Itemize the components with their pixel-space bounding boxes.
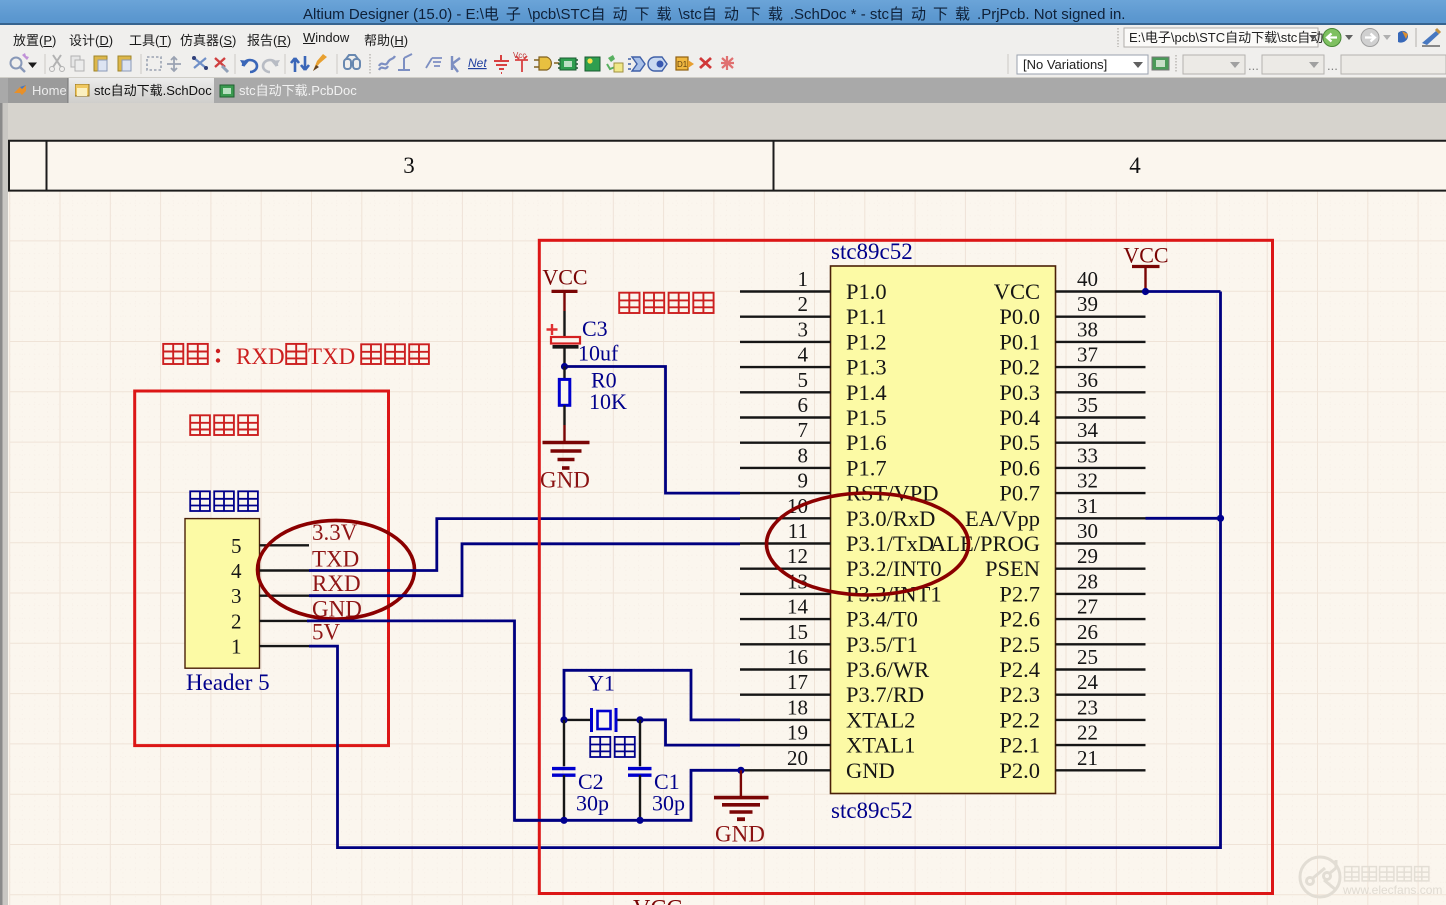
svg-text:P1.7: P1.7	[846, 455, 887, 480]
connector J1 designator text (blue)	[190, 491, 258, 511]
svg-text:P2.5: P2.5	[999, 632, 1040, 657]
svg-text:1: 1	[798, 267, 809, 291]
U1 pin 15 (P3.5/T1)	[740, 620, 918, 657]
red box around minimal system section	[539, 240, 1272, 893]
svg-text:17: 17	[787, 670, 808, 694]
microcontroller U1 stc89c52 body	[831, 266, 1056, 794]
wire EA/Vpp: U1 pin31 to VCC rail	[1146, 517, 1221, 520]
svg-text:39: 39	[1077, 292, 1098, 316]
capacitor C3 (polarized)	[547, 324, 581, 367]
svg-text:30p: 30p	[576, 791, 609, 816]
crystal label (Chinese)	[590, 737, 635, 757]
svg-text:P0.6: P0.6	[999, 455, 1040, 480]
svg-text:P2.4: P2.4	[999, 657, 1040, 682]
U1 pin 35 (P0.4)	[999, 393, 1145, 430]
wire ground rail: bottom loop up to U1 pin20	[515, 770, 741, 820]
U1 pin 13 (P3.3/INT1)	[740, 569, 942, 606]
svg-text:16: 16	[787, 645, 808, 669]
wire VCC: pin40 to right vertical rail	[1146, 290, 1221, 293]
svg-text:stc89c52: stc89c52	[831, 239, 913, 264]
svg-text:P1.1: P1.1	[846, 304, 887, 329]
U1 pin 34 (P0.5)	[999, 418, 1145, 455]
svg-text:VCC: VCC	[633, 896, 682, 905]
junction node: C3 / R0 / reset net	[561, 363, 568, 370]
svg-text:P2.0: P2.0	[999, 758, 1040, 783]
svg-text:14: 14	[787, 595, 809, 619]
U1 pin 20 (GND)	[740, 746, 895, 783]
svg-text:15: 15	[787, 620, 808, 644]
svg-text:2: 2	[231, 609, 242, 633]
svg-text:C3: C3	[582, 316, 608, 341]
svg-text:P2.3: P2.3	[999, 682, 1040, 707]
svg-text:37: 37	[1077, 343, 1098, 367]
svg-text:1: 1	[231, 635, 242, 659]
wire GND: J1 pin2 down to crystal ground rail	[307, 621, 564, 820]
svg-text:21: 21	[1077, 746, 1098, 770]
svg-text:P0.1: P0.1	[999, 329, 1040, 354]
U1 pin 26 (P2.5)	[999, 620, 1145, 657]
U1 pin 4 (P1.3)	[740, 343, 887, 380]
watermark logo elecfans	[1300, 857, 1340, 897]
svg-text:P0.0: P0.0	[999, 304, 1040, 329]
svg-text:P2.6: P2.6	[999, 607, 1040, 632]
svg-text:23: 23	[1077, 695, 1098, 719]
svg-text:P3.7/RD: P3.7/RD	[846, 682, 924, 707]
U1 pin 18 (XTAL2)	[740, 695, 915, 732]
svg-text:18: 18	[787, 695, 808, 719]
svg-text:P0.5: P0.5	[999, 430, 1040, 455]
svg-text:RXD: RXD	[312, 571, 361, 596]
junction node C1 bottom	[636, 817, 643, 824]
resistor R0	[559, 367, 570, 426]
svg-text:32: 32	[1077, 469, 1098, 493]
svg-text:P0.2: P0.2	[999, 355, 1040, 380]
svg-text:36: 36	[1077, 368, 1098, 392]
downloader section title (red)	[190, 415, 258, 435]
svg-text:5: 5	[231, 534, 242, 558]
svg-text:P0.4: P0.4	[999, 405, 1040, 430]
U1 pin 14 (P3.4/T0)	[740, 595, 918, 632]
crystal Y1 symbol	[564, 708, 640, 732]
U1 pin 40 (VCC)	[994, 267, 1146, 304]
red ellipse highlighting P3.0/P3.1/P3.2 pins of U1	[767, 493, 969, 595]
wire XTAL2 top loop: crystal left to U1 pin18	[564, 670, 740, 720]
svg-text:31: 31	[1077, 494, 1098, 518]
svg-text:25: 25	[1077, 645, 1098, 669]
svg-text:P3.0/RxD: P3.0/RxD	[846, 506, 935, 531]
svg-text:4: 4	[798, 343, 809, 367]
svg-text:3.3V: 3.3V	[312, 520, 358, 545]
svg-text:www.elecfans.com: www.elecfans.com	[1342, 883, 1442, 897]
U1 pin 31 (EA/Vpp)	[965, 494, 1146, 531]
svg-text:XTAL1: XTAL1	[846, 733, 915, 758]
svg-text:33: 33	[1077, 443, 1098, 467]
svg-text:VCC: VCC	[542, 265, 587, 290]
wire TXD: J1 pin4 to U1 pin10	[309, 519, 740, 571]
U1 pin 19 (XTAL1)	[740, 721, 915, 758]
svg-text:GND: GND	[540, 468, 590, 493]
svg-text:P2.2: P2.2	[999, 707, 1040, 732]
svg-text:PSEN: PSEN	[985, 556, 1040, 581]
svg-text:26: 26	[1077, 620, 1098, 644]
connector J1 Header 5 body	[185, 519, 260, 669]
svg-text:P1.3: P1.3	[846, 355, 887, 380]
svg-text:P3.5/T1: P3.5/T1	[846, 632, 918, 657]
svg-text:7: 7	[798, 418, 809, 442]
svg-text:Y1: Y1	[588, 671, 615, 696]
svg-text:P3.4/T0: P3.4/T0	[846, 607, 918, 632]
svg-text:P3.1/TxD: P3.1/TxD	[846, 531, 934, 556]
svg-text:P1.4: P1.4	[846, 380, 887, 405]
junction node C2 bottom	[560, 817, 567, 824]
sheet border top ruler band	[8, 141, 1446, 191]
svg-text:30p: 30p	[652, 791, 685, 816]
wire VCC symbol to C3 top	[563, 311, 565, 337]
svg-text:EA/Vpp: EA/Vpp	[965, 506, 1040, 531]
U1 pin 11 (P3.1/TxD)	[740, 519, 934, 556]
svg-text:29: 29	[1077, 544, 1098, 568]
svg-text:P3.2/INT0: P3.2/INT0	[846, 556, 942, 581]
red box around downloader section	[135, 391, 389, 746]
wire XTAL1: crystal right to U1 pin19	[640, 720, 740, 745]
ground symbol GND (at U1 pin20)	[714, 770, 769, 846]
U1 pin 29 (PSEN)	[985, 544, 1146, 581]
svg-text:P3.6/WR: P3.6/WR	[846, 657, 929, 682]
svg-text:40: 40	[1077, 267, 1098, 291]
svg-text:RXD: RXD	[236, 344, 285, 369]
svg-text:5V: 5V	[312, 620, 341, 645]
svg-text:24: 24	[1077, 670, 1099, 694]
U1 pin 32 (P0.7)	[999, 469, 1145, 506]
svg-text:P0.3: P0.3	[999, 380, 1040, 405]
svg-text:P1.6: P1.6	[846, 430, 887, 455]
U1 pin 8 (P1.7)	[740, 443, 887, 480]
U1 pin 38 (P0.1)	[999, 317, 1145, 354]
svg-text:3: 3	[231, 584, 242, 608]
U1 pin 33 (P0.6)	[999, 443, 1145, 480]
svg-text:3: 3	[798, 317, 809, 341]
J1 pin 2 number and stub	[231, 609, 309, 633]
power symbol VCC (left, above C3)	[542, 265, 587, 312]
svg-text:VCC: VCC	[1123, 243, 1168, 268]
svg-text:P2.1: P2.1	[999, 733, 1040, 758]
junction node U1 pin20 GND	[737, 767, 744, 774]
capacitor C1	[628, 720, 652, 820]
U1 pin 24 (P2.3)	[999, 670, 1145, 707]
red ellipse highlighting TXD/RXD/GND labels	[258, 520, 415, 619]
svg-text:GND: GND	[846, 758, 895, 783]
svg-text:P0.7: P0.7	[999, 481, 1040, 506]
U1 pin 9 (RST/VPD)	[740, 469, 939, 506]
svg-text:ALE/PROG: ALE/PROG	[930, 531, 1040, 556]
svg-text:VCC: VCC	[994, 279, 1040, 304]
svg-text:P1.0: P1.0	[846, 279, 887, 304]
J1 pin 4 number and stub	[231, 559, 309, 583]
svg-text:20: 20	[787, 746, 808, 770]
svg-text:4: 4	[1129, 153, 1141, 178]
svg-text:11: 11	[788, 519, 808, 543]
U1 pin 12 (P3.2/INT0)	[740, 544, 942, 581]
U1 pin 2 (P1.1)	[740, 292, 887, 329]
U1 pin 16 (P3.6/WR)	[740, 645, 929, 682]
junction node EA/Vpp on VCC rail	[1217, 515, 1224, 522]
U1 pin 23 (P2.2)	[999, 695, 1145, 732]
svg-text:XTAL2: XTAL2	[846, 707, 915, 732]
svg-text:30: 30	[1077, 519, 1098, 543]
svg-text:27: 27	[1077, 595, 1098, 619]
svg-text:TXD: TXD	[308, 344, 355, 369]
U1 pin 28 (P2.7)	[999, 569, 1145, 606]
J1 pin 5 number and stub	[231, 534, 309, 558]
junction node crystal right	[636, 716, 643, 723]
svg-text:2: 2	[798, 292, 809, 316]
svg-text:35: 35	[1077, 393, 1098, 417]
minimal system title (red)	[619, 293, 713, 313]
wire RXD: J1 pin3 to U1 pin11	[309, 544, 740, 596]
U1 pin 36 (P0.3)	[999, 368, 1145, 405]
U1 pin 39 (P0.0)	[999, 292, 1145, 329]
U1 pin 37 (P0.2)	[999, 343, 1145, 380]
U1 pin 17 (P3.7/RD)	[740, 670, 924, 707]
U1 pin 5 (P1.4)	[740, 368, 887, 405]
U1 pin 6 (P1.5)	[740, 393, 887, 430]
wire reset net: junction to U1 pin9 RST	[565, 367, 741, 494]
svg-text:28: 28	[1077, 569, 1098, 593]
junction node at U1 pin40 / VCC	[1142, 288, 1149, 295]
svg-text:GND: GND	[715, 822, 765, 847]
svg-text:10K: 10K	[589, 389, 627, 414]
svg-text:8: 8	[798, 443, 809, 467]
U1 pin 25 (P2.4)	[999, 645, 1145, 682]
svg-text:stc89c52: stc89c52	[831, 798, 913, 823]
U1 pin 3 (P1.2)	[740, 317, 887, 354]
svg-text:4: 4	[231, 559, 242, 583]
power symbol VCC (right, at U1 pin 40)	[1123, 243, 1168, 292]
svg-text:Header 5: Header 5	[186, 670, 270, 695]
annotation text: note about RXD/TXD wiring	[163, 344, 429, 369]
svg-text:9: 9	[798, 469, 809, 493]
J1 pin 1 number and stub	[231, 635, 309, 659]
svg-text:3: 3	[403, 153, 415, 178]
svg-text:22: 22	[1077, 721, 1098, 745]
svg-text:P1.2: P1.2	[846, 329, 887, 354]
U1 pin 27 (P2.6)	[999, 595, 1145, 632]
ground symbol GND (below R0)	[540, 425, 590, 493]
wire 5V/VCC: J1 pin1 down, across bottom, up right side to U1 pin40	[309, 292, 1221, 848]
U1 pin 10 (P3.0/RxD)	[740, 494, 935, 531]
junction node crystal left	[560, 716, 567, 723]
U1 pin 30 (ALE/PROG)	[930, 519, 1146, 556]
U1 pin 22 (P2.1)	[999, 721, 1145, 758]
svg-text:34: 34	[1077, 418, 1099, 442]
U1 pin 7 (P1.6)	[740, 418, 887, 455]
J1 pin 3 number and stub	[231, 584, 309, 608]
svg-text:P2.7: P2.7	[999, 581, 1040, 606]
svg-text:10uf: 10uf	[578, 341, 619, 366]
svg-text:P1.5: P1.5	[846, 405, 887, 430]
U1 pin 1 (P1.0)	[740, 267, 887, 304]
svg-text:6: 6	[798, 393, 809, 417]
svg-text:5: 5	[798, 368, 809, 392]
svg-text:12: 12	[787, 544, 808, 568]
svg-text:TXD: TXD	[312, 547, 359, 572]
svg-text:38: 38	[1077, 317, 1098, 341]
svg-text:19: 19	[787, 721, 808, 745]
U1 pin 21 (P2.0)	[999, 746, 1145, 783]
capacitor C2	[552, 720, 576, 820]
